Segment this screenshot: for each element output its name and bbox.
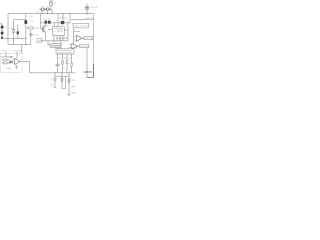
svg-text:Integrated FET: Integrated FET	[57, 51, 74, 54]
label box E left of transformer	[37, 38, 42, 42]
zener D7 in module	[10, 56, 13, 58]
pin U1 bottom pins	[54, 35, 63, 41]
svg-text:R21: R21	[58, 58, 61, 60]
wire output drop x55	[54, 73, 56, 88]
wire right border	[93, 14, 95, 78]
svg-text:C3 1n: C3 1n	[33, 34, 38, 36]
wire corner x29.5	[29, 62, 31, 73]
svg-text:D4: D4	[48, 18, 51, 20]
svg-text:R22: R22	[63, 58, 66, 60]
resistor R11 output	[68, 79, 70, 82]
svg-text:OPTO FB: OPTO FB	[13, 50, 22, 52]
transformer T1 box	[56, 49, 74, 55]
capacitor C8 in module	[15, 65, 17, 69]
op-amp U3	[70, 44, 80, 49]
svg-text:GND: GND	[72, 93, 77, 95]
capacitor C6 on pin	[56, 64, 60, 66]
mosfet Q1	[41, 23, 46, 41]
svg-text:LM5045: LM5045	[84, 71, 93, 74]
wire to box D	[48, 41, 50, 45]
wire vert x40.5	[40, 14, 42, 23]
diode D3 mid row	[45, 21, 48, 24]
svg-text:B1: B1	[5, 27, 7, 29]
wire output drop x65.5	[65, 76, 67, 87]
capacitor C4 top center	[49, 1, 56, 9]
capacitor C7 output	[53, 79, 56, 80]
svg-text:C5 1nF: C5 1nF	[90, 7, 98, 9]
wire module top line	[2, 56, 10, 58]
diode D5 mid row right	[61, 21, 65, 24]
svg-text:R13: R13	[72, 87, 75, 89]
wire vert x40.5 lower	[40, 23, 42, 29]
pin T1 bottom pins	[58, 54, 72, 73]
svg-text:CN1: CN1	[30, 16, 34, 18]
svg-text:CTRL: CTRL	[53, 31, 63, 33]
wire y44.6	[8, 44, 31, 46]
pin U1 right	[64, 29, 68, 31]
op-amp U4 in module	[13, 59, 20, 65]
wire left border	[7, 14, 9, 45]
label box U2 out	[84, 36, 93, 40]
svg-text:Over Current: Over Current	[74, 25, 88, 28]
wire output drop x62	[61, 73, 63, 88]
wire module feed drops	[6, 52, 17, 59]
dashed isolation box	[1, 54, 23, 73]
svg-text:F1: F1	[37, 12, 39, 14]
wire op-amp module output	[20, 61, 30, 63]
wire from label box down	[74, 28, 80, 32]
pin U1 top pins	[54, 23, 58, 27]
wire feedback drop	[21, 45, 23, 54]
pin box D top	[53, 41, 55, 44]
resistor R5 in module	[2, 59, 10, 61]
wire AC input stub	[0, 23, 2, 25]
wire mid row bus	[41, 22, 71, 24]
resistor R7 on pin	[62, 61, 64, 64]
label box D above transformer	[50, 44, 61, 48]
svg-text:C4: C4	[54, 3, 56, 5]
ground symbol bottom	[68, 94, 71, 96]
diode D1 on x25.8	[25, 14, 28, 45]
node dots y38.7	[13, 38, 14, 39]
node dots bottom bus	[54, 72, 55, 73]
svg-text:UVLO 9V: UVLO 9V	[80, 46, 89, 48]
svg-text:DRIVER: DRIVER	[51, 46, 61, 48]
resistor R6 in module	[2, 62, 10, 64]
fuse F1 top middle	[39, 8, 52, 14]
wire vert x70	[69, 14, 71, 23]
wire y38 stub	[57, 37, 68, 39]
wire bottom left bus	[2, 38, 26, 40]
wire top of C2	[14, 19, 26, 21]
svg-text:C10: C10	[50, 85, 53, 87]
op-amp U2	[74, 35, 85, 41]
node dot	[25, 44, 26, 45]
wire output drop x69	[68, 73, 70, 95]
ic U1 pwm controller	[52, 27, 64, 35]
diode string input left	[1, 24, 4, 39]
svg-text:OVP 2.5: OVP 2.5	[85, 38, 93, 40]
svg-text:+12V 2A: +12V 2A	[85, 17, 94, 20]
pin T1 top	[55, 41, 78, 49]
label box current limit	[73, 23, 89, 28]
wire vert x58 upper	[57, 14, 59, 23]
label box U3 out	[80, 44, 89, 48]
wire bottom bus y72.8	[30, 72, 76, 74]
svg-text:R12: R12	[72, 80, 75, 82]
capacitor C1 top right	[85, 4, 89, 15]
node junction dots top bus	[41, 13, 42, 14]
capacitor C2 left	[11, 20, 15, 45]
svg-text:D1: D1	[30, 21, 33, 23]
wire lower mid bus	[41, 40, 69, 42]
wire vert x68	[67, 23, 69, 41]
svg-text:R3 1k: R3 1k	[34, 28, 39, 30]
diode D6 in module	[10, 60, 13, 63]
wire bottom right corner	[87, 64, 94, 78]
wire second bottom line	[55, 75, 69, 77]
wire vert x87 down	[86, 48, 88, 78]
wire vert x63	[62, 14, 64, 21]
svg-text:R23: R23	[68, 58, 71, 60]
diode D4 mid row	[48, 21, 51, 24]
svg-text:C9: C9	[50, 78, 52, 80]
resistor R3 stub	[26, 27, 33, 45]
resistor R9 on pin	[71, 63, 73, 66]
svg-text:D5 SS34: D5 SS34	[59, 17, 67, 19]
svg-text:D3: D3	[43, 18, 46, 20]
svg-text:TL431: TL431	[6, 68, 11, 70]
resistor R10 output	[61, 78, 63, 81]
wire top bus	[8, 13, 94, 15]
zener D2 left	[17, 24, 19, 39]
resistor R8 on pin	[66, 61, 68, 64]
node dot x68	[67, 22, 68, 23]
pin U1 left	[48, 29, 52, 31]
wire right sub-bus	[71, 18, 94, 20]
ground ticks	[54, 88, 66, 89]
wire vert x73.5	[73, 32, 75, 45]
